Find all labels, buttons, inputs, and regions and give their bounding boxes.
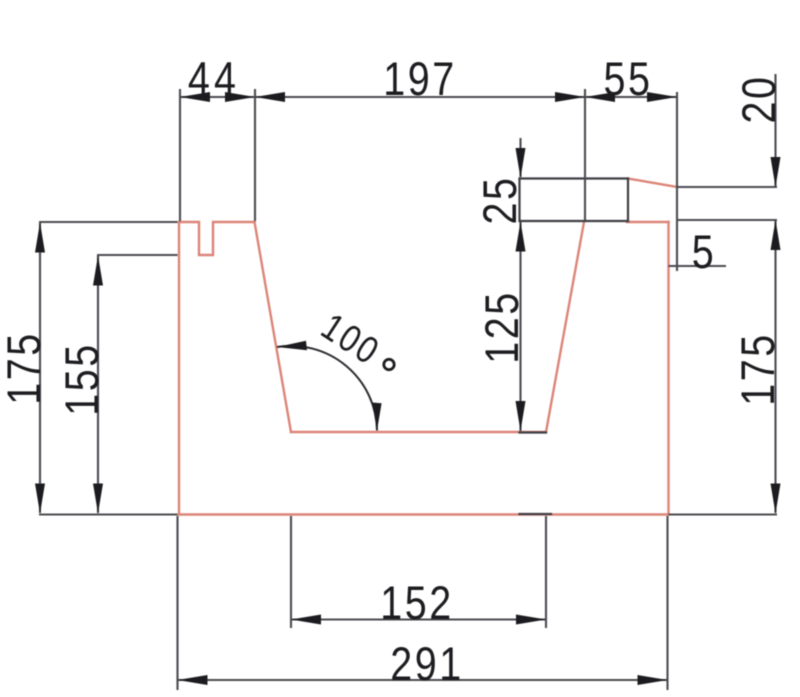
svg-text:5: 5 — [692, 227, 716, 279]
svg-text:125: 125 — [477, 290, 529, 363]
svg-text:175: 175 — [733, 332, 785, 405]
svg-text:175: 175 — [0, 331, 51, 404]
svg-text:20: 20 — [734, 75, 786, 124]
svg-text:25: 25 — [475, 176, 527, 225]
svg-text:55: 55 — [604, 54, 653, 106]
svg-text:197: 197 — [383, 54, 456, 106]
svg-text:155: 155 — [57, 342, 109, 415]
svg-text:100: 100 — [314, 305, 388, 374]
svg-text:152: 152 — [380, 578, 453, 630]
svg-text:291: 291 — [390, 639, 463, 691]
svg-text:44: 44 — [188, 54, 240, 106]
